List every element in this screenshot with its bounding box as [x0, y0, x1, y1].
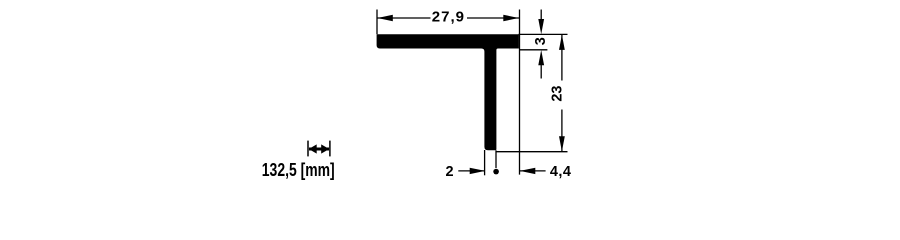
- dimension line 23 lower segment with down arrow: [561, 110, 563, 152]
- extension line left (27,9): [376, 10, 378, 35]
- arrow below 3 (pointing up): [540, 64, 542, 79]
- scale symbol left bar: [307, 141, 309, 157]
- svg-text:27,9: 27,9: [432, 8, 465, 25]
- dimension line 27,9 right segment: [467, 17, 519, 19]
- arrow above 3 (pointing down): [540, 10, 542, 22]
- profile cross-section (T-angle extrusion): [377, 34, 519, 150]
- bottom baseline extension: [496, 151, 568, 153]
- extension line flange bottom, to the right: [520, 49, 548, 51]
- dimension line 27,9 left segment: [377, 17, 430, 19]
- svg-text:132,5 [mm]: 132,5 [mm]: [262, 160, 335, 180]
- dot terminator: [493, 169, 499, 175]
- extension line right (27,9 / 4,4): [519, 10, 521, 175]
- dimension line 2 with right-pointing arrow: [458, 170, 485, 172]
- svg-text:23: 23: [549, 86, 565, 102]
- scale symbol left arrowhead: [309, 144, 317, 153]
- dimension line 4,4 with left-pointing arrow: [520, 170, 546, 172]
- svg-text:2: 2: [445, 164, 453, 180]
- svg-text:4,4: 4,4: [550, 164, 572, 180]
- arrow right of 27,9: [503, 15, 519, 22]
- extension line below stem left edge: [484, 150, 486, 175]
- scale symbol right bar: [329, 141, 331, 157]
- extension line flange top, to the right: [519, 33, 568, 35]
- arrow left of 27,9: [377, 15, 393, 22]
- extension line below stem right edge: [495, 150, 497, 168]
- svg-text:3: 3: [533, 37, 549, 45]
- scale symbol double arrow shaft: [309, 148, 329, 151]
- scale symbol right arrowhead: [321, 144, 329, 153]
- dimension line 23 upper segment with up arrow: [561, 35, 563, 81]
